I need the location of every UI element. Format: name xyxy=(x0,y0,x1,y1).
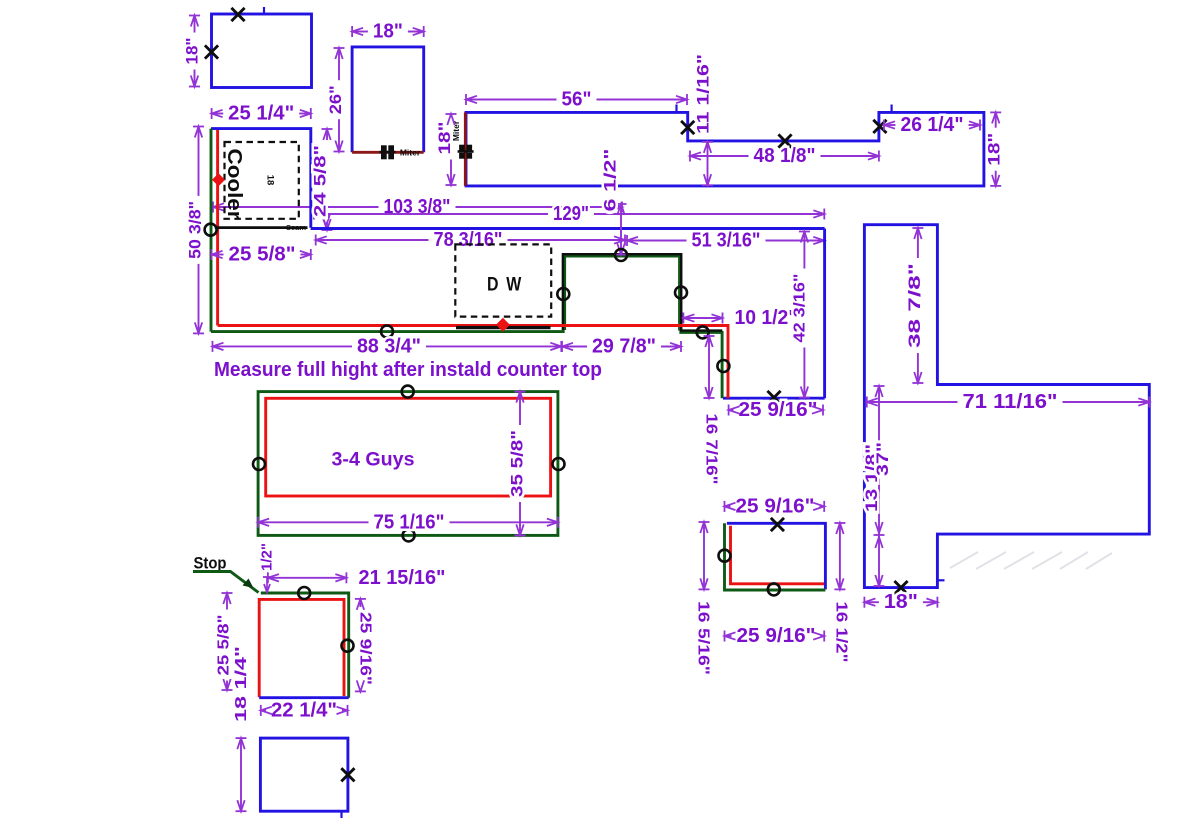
dim 78 3/16 xyxy=(316,229,625,251)
dim 26 1/4 inside right part xyxy=(884,114,980,136)
svg-text:16 5/16": 16 5/16" xyxy=(695,601,712,675)
circle node small rect bottom xyxy=(768,583,780,595)
dim 38 7/8 xyxy=(905,228,924,383)
svg-text:25 5/8": 25 5/8" xyxy=(229,244,296,266)
svg-text:42 3/16": 42 3/16" xyxy=(792,274,809,343)
svg-text:16 1/2": 16 1/2" xyxy=(833,602,850,663)
circle node stop rect right xyxy=(342,640,354,652)
dim 37 and 13 1/8 line xyxy=(874,386,885,586)
counter green outline xyxy=(211,255,722,398)
tick on top edge of top-left rectangle xyxy=(263,7,265,15)
dim 35 5/8 island xyxy=(508,392,527,536)
svg-text:1/2": 1/2" xyxy=(259,543,276,571)
svg-text:88 3/4": 88 3/4" xyxy=(357,335,421,357)
svg-text:6 1/2": 6 1/2" xyxy=(601,149,620,212)
circle node notch right xyxy=(717,360,729,372)
dim 25 1/4 above cooler xyxy=(212,103,311,125)
dim 21 15/16 xyxy=(268,567,446,589)
stop rect green top and right xyxy=(261,593,349,698)
stop rect red outline xyxy=(259,599,344,697)
svg-text:51 3/16": 51 3/16" xyxy=(692,230,761,252)
X mark T bottom xyxy=(894,581,907,594)
counter step black outline xyxy=(563,254,722,330)
svg-text:18": 18" xyxy=(183,38,202,65)
DW dashed rectangle xyxy=(455,244,551,316)
circle node step right xyxy=(675,287,687,299)
top bar maroon left edge xyxy=(464,112,467,185)
svg-text:18": 18" xyxy=(884,591,918,613)
stop leader arrowhead xyxy=(243,579,254,589)
svg-text:78 3/16": 78 3/16" xyxy=(434,229,503,251)
dim 16 1/2 right xyxy=(833,523,850,663)
svg-text:22 1/4": 22 1/4" xyxy=(271,699,337,721)
dim 25 9/16 below small rect xyxy=(725,625,825,647)
dim 71 11/16 xyxy=(867,391,1150,413)
dim 24 5/8 right of cooler xyxy=(311,129,333,230)
dim 18in left of top-left rect xyxy=(183,16,202,87)
18x26 rectangle maroon bottom edge xyxy=(352,151,424,154)
small rect green left and bottom xyxy=(725,523,826,590)
svg-text:56": 56" xyxy=(562,89,592,111)
cooler blue rectangle xyxy=(211,129,311,228)
svg-text:38 7/8": 38 7/8" xyxy=(905,263,924,348)
circle node island right xyxy=(553,458,565,470)
circle node island bottom xyxy=(403,529,415,541)
circle node step top xyxy=(615,249,627,261)
dim 75 1/16 island xyxy=(258,511,558,533)
svg-text:11 1/16": 11 1/16" xyxy=(694,54,713,134)
top bar blue outline xyxy=(466,112,984,185)
tick on top edge left part xyxy=(675,105,677,113)
X mark top edge xyxy=(231,8,244,21)
svg-text:26": 26" xyxy=(326,85,345,114)
main counter blue bottom of peninsula xyxy=(723,397,825,400)
cooler dashed rectangle xyxy=(225,142,299,219)
black seam line under cooler xyxy=(215,226,308,229)
svg-text:18": 18" xyxy=(373,21,403,43)
dim 25 9/16 stop right xyxy=(355,599,374,692)
svg-text:3-4 Guys: 3-4 Guys xyxy=(332,450,415,471)
top-left 18in rectangle xyxy=(212,14,312,88)
svg-text:25 9/16": 25 9/16" xyxy=(739,399,818,421)
dim 103 3/8 xyxy=(213,196,622,218)
DW black seam line xyxy=(456,326,551,329)
dim 25 5/8 below seam xyxy=(212,244,311,266)
dim 25 9/16 above small rect xyxy=(725,495,825,517)
dim 18 1/4 line left of bottom rect xyxy=(236,738,247,811)
X mark right part left top xyxy=(873,120,886,133)
18x26 rectangle blue sides xyxy=(352,47,424,152)
miter symbol on bar left edge xyxy=(458,145,474,159)
svg-text:25 9/16": 25 9/16" xyxy=(357,612,374,685)
svg-text:50 3/8": 50 3/8" xyxy=(186,201,205,259)
svg-text:Measure full hight after insta: Measure full hight after instald counter… xyxy=(214,359,602,381)
X mark small rect top xyxy=(771,518,784,531)
svg-text:16 7/16": 16 7/16" xyxy=(703,414,720,485)
circle node band bottom xyxy=(381,326,393,338)
dim 18 T bottom xyxy=(864,591,937,613)
small rect blue top and right xyxy=(727,523,826,589)
dim 88 3/4 xyxy=(213,335,562,357)
svg-text:26 1/4": 26 1/4" xyxy=(901,114,964,136)
svg-text:Miter: Miter xyxy=(400,148,421,158)
svg-text:18 1/4": 18 1/4" xyxy=(233,646,250,722)
svg-text:35 5/8": 35 5/8" xyxy=(508,430,527,497)
dim 18in above 18x26 rect xyxy=(352,21,424,43)
island green rectangle xyxy=(258,392,558,536)
dim 50 3/8 left xyxy=(186,127,205,334)
svg-text:18": 18" xyxy=(435,122,454,155)
dim 26in left of 18x26 rect xyxy=(326,48,345,152)
circle node at seam left end xyxy=(205,224,217,236)
dim 16 5/16 left xyxy=(695,522,712,675)
dim 6 1/2 vertical xyxy=(601,149,627,255)
bottom blue rectangle xyxy=(260,738,348,811)
tick right of T bottom xyxy=(937,579,944,581)
dim 42 3/16 right xyxy=(792,232,810,398)
X mark peninsula bottom xyxy=(767,391,780,404)
dim 25 5/8 stop left xyxy=(216,593,233,690)
dim 129 xyxy=(314,203,824,225)
dim 56in xyxy=(466,89,687,111)
tick below bottom rect right corner xyxy=(340,811,342,818)
svg-text:37": 37" xyxy=(874,442,892,476)
island red rectangle xyxy=(266,398,551,496)
svg-text:Stop: Stop xyxy=(194,554,227,573)
circle node stop rect top xyxy=(298,587,310,599)
circle node step left xyxy=(557,288,569,300)
dim 25 9/16 peninsula xyxy=(729,399,823,421)
svg-text:18": 18" xyxy=(985,133,1004,166)
svg-text:10 1/2": 10 1/2" xyxy=(735,307,798,329)
dim 18in right of bar xyxy=(985,112,1004,185)
svg-text:24 5/8": 24 5/8" xyxy=(311,145,330,217)
svg-text:25 9/16": 25 9/16" xyxy=(736,495,815,517)
svg-text:48 1/8": 48 1/8" xyxy=(754,145,816,167)
svg-text:D W: D W xyxy=(487,275,523,296)
tick on top edge right part xyxy=(890,105,892,113)
svg-text:Seam: Seam xyxy=(286,223,306,232)
red diamond on cooler left xyxy=(212,173,225,186)
svg-text:18: 18 xyxy=(265,175,276,186)
watermark squiggle xyxy=(950,552,1112,569)
dim 18in bar left edge xyxy=(435,114,457,185)
circle node island top xyxy=(402,386,414,398)
svg-text:21 15/16": 21 15/16" xyxy=(359,567,446,589)
X mark left edge xyxy=(205,45,218,58)
svg-text:71 11/16": 71 11/16" xyxy=(963,391,1058,413)
cooler green left edge xyxy=(210,129,213,332)
X mark at 56 bar right top corner xyxy=(681,121,694,134)
T shape blue outline xyxy=(864,225,1149,588)
svg-text:129": 129" xyxy=(553,203,589,225)
dim 22 1/4 xyxy=(261,699,348,721)
small rect red inner xyxy=(731,526,825,584)
cooler red left edge xyxy=(216,130,219,326)
red diamond at DW xyxy=(496,318,510,332)
miter symbol on 18x26 bottom xyxy=(380,145,396,159)
dim 10 1/2 xyxy=(683,307,797,329)
X mark bottom rect right edge xyxy=(341,768,354,781)
dim 51 3/16 xyxy=(627,230,824,252)
dim 29 7/8 xyxy=(562,336,681,358)
svg-text:25 5/8": 25 5/8" xyxy=(216,615,233,676)
counter step green inner xyxy=(565,257,679,331)
svg-text:29 7/8": 29 7/8" xyxy=(592,336,656,358)
X mark middle bar top xyxy=(778,134,791,147)
main counter blue right edge xyxy=(823,229,826,399)
svg-text:75 1/16": 75 1/16" xyxy=(374,511,445,533)
dim 11 1/16 vertical xyxy=(694,54,714,185)
circle node notch bottom xyxy=(697,326,709,338)
svg-text:25 1/4": 25 1/4" xyxy=(228,103,294,125)
stop rect blue bottom xyxy=(259,696,349,699)
circle node island left xyxy=(253,458,265,470)
counter red bottom line xyxy=(218,326,728,399)
stop green leader xyxy=(193,572,259,593)
small down arrow at 129 start xyxy=(322,215,329,226)
circle node small rect left xyxy=(719,550,731,562)
dim 16 7/16 notch xyxy=(703,336,720,485)
dim 48 1/8 xyxy=(690,145,879,167)
svg-text:25 9/16": 25 9/16" xyxy=(737,625,816,647)
main counter blue top line xyxy=(311,227,825,230)
svg-text:Cooler: Cooler xyxy=(223,149,245,220)
